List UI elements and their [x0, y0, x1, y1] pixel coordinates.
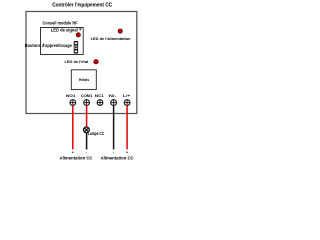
svg-text:Boutons d'apprentissage: Boutons d'apprentissage: [25, 43, 73, 48]
svg-text:Alimentation CC: Alimentation CC: [60, 156, 93, 161]
learning buttons S1: [74, 41, 78, 54]
svg-text:COM1: COM1: [81, 93, 93, 98]
state LED D3 (red): [94, 60, 98, 64]
terminal N/-: [111, 100, 117, 106]
svg-text:+: +: [126, 151, 128, 155]
wire COM1 to lamp (red): [86, 105, 88, 127]
svg-text:L/+: L/+: [123, 93, 131, 98]
device enclosure box: [26, 12, 137, 114]
terminal NC1: [97, 100, 103, 106]
wire N/- to supply - (black): [113, 105, 115, 149]
svg-text:Relais: Relais: [79, 77, 89, 82]
arrow to signal LED: [79, 28, 81, 31]
terminal COM1: [84, 100, 90, 106]
svg-text:LED de signal: LED de signal: [51, 28, 78, 33]
terminal L/+: [124, 100, 130, 106]
svg-text:-: -: [86, 151, 88, 155]
svg-text:+: +: [72, 151, 74, 155]
svg-text:Conseil module RF: Conseil module RF: [43, 21, 78, 26]
wire NO1 to supply + (red): [72, 105, 74, 149]
svg-text:Alimentation CC: Alimentation CC: [101, 156, 134, 161]
terminal NO1: [70, 100, 76, 106]
svg-text:-: -: [113, 151, 115, 155]
lamp LP1: [84, 127, 90, 133]
svg-text:NC1: NC1: [95, 93, 105, 98]
wire lamp to supply - (black): [86, 133, 88, 150]
svg-text:Contrôler l'équipement CC: Contrôler l'équipement CC: [52, 3, 112, 9]
svg-text:Lampe CC: Lampe CC: [88, 131, 105, 136]
svg-text:NO1: NO1: [66, 93, 76, 98]
relay K1: [71, 70, 96, 90]
power LED D2 (red): [118, 29, 122, 33]
svg-text:N/-: N/-: [109, 93, 117, 98]
wire L/+ to supply + (red): [126, 105, 128, 149]
signal LED D1 (red): [76, 33, 80, 37]
svg-text:LED de l'alimentation: LED de l'alimentation: [91, 36, 132, 41]
RF module board U1: [41, 28, 84, 55]
svg-text:LED de l'état: LED de l'état: [65, 59, 89, 64]
